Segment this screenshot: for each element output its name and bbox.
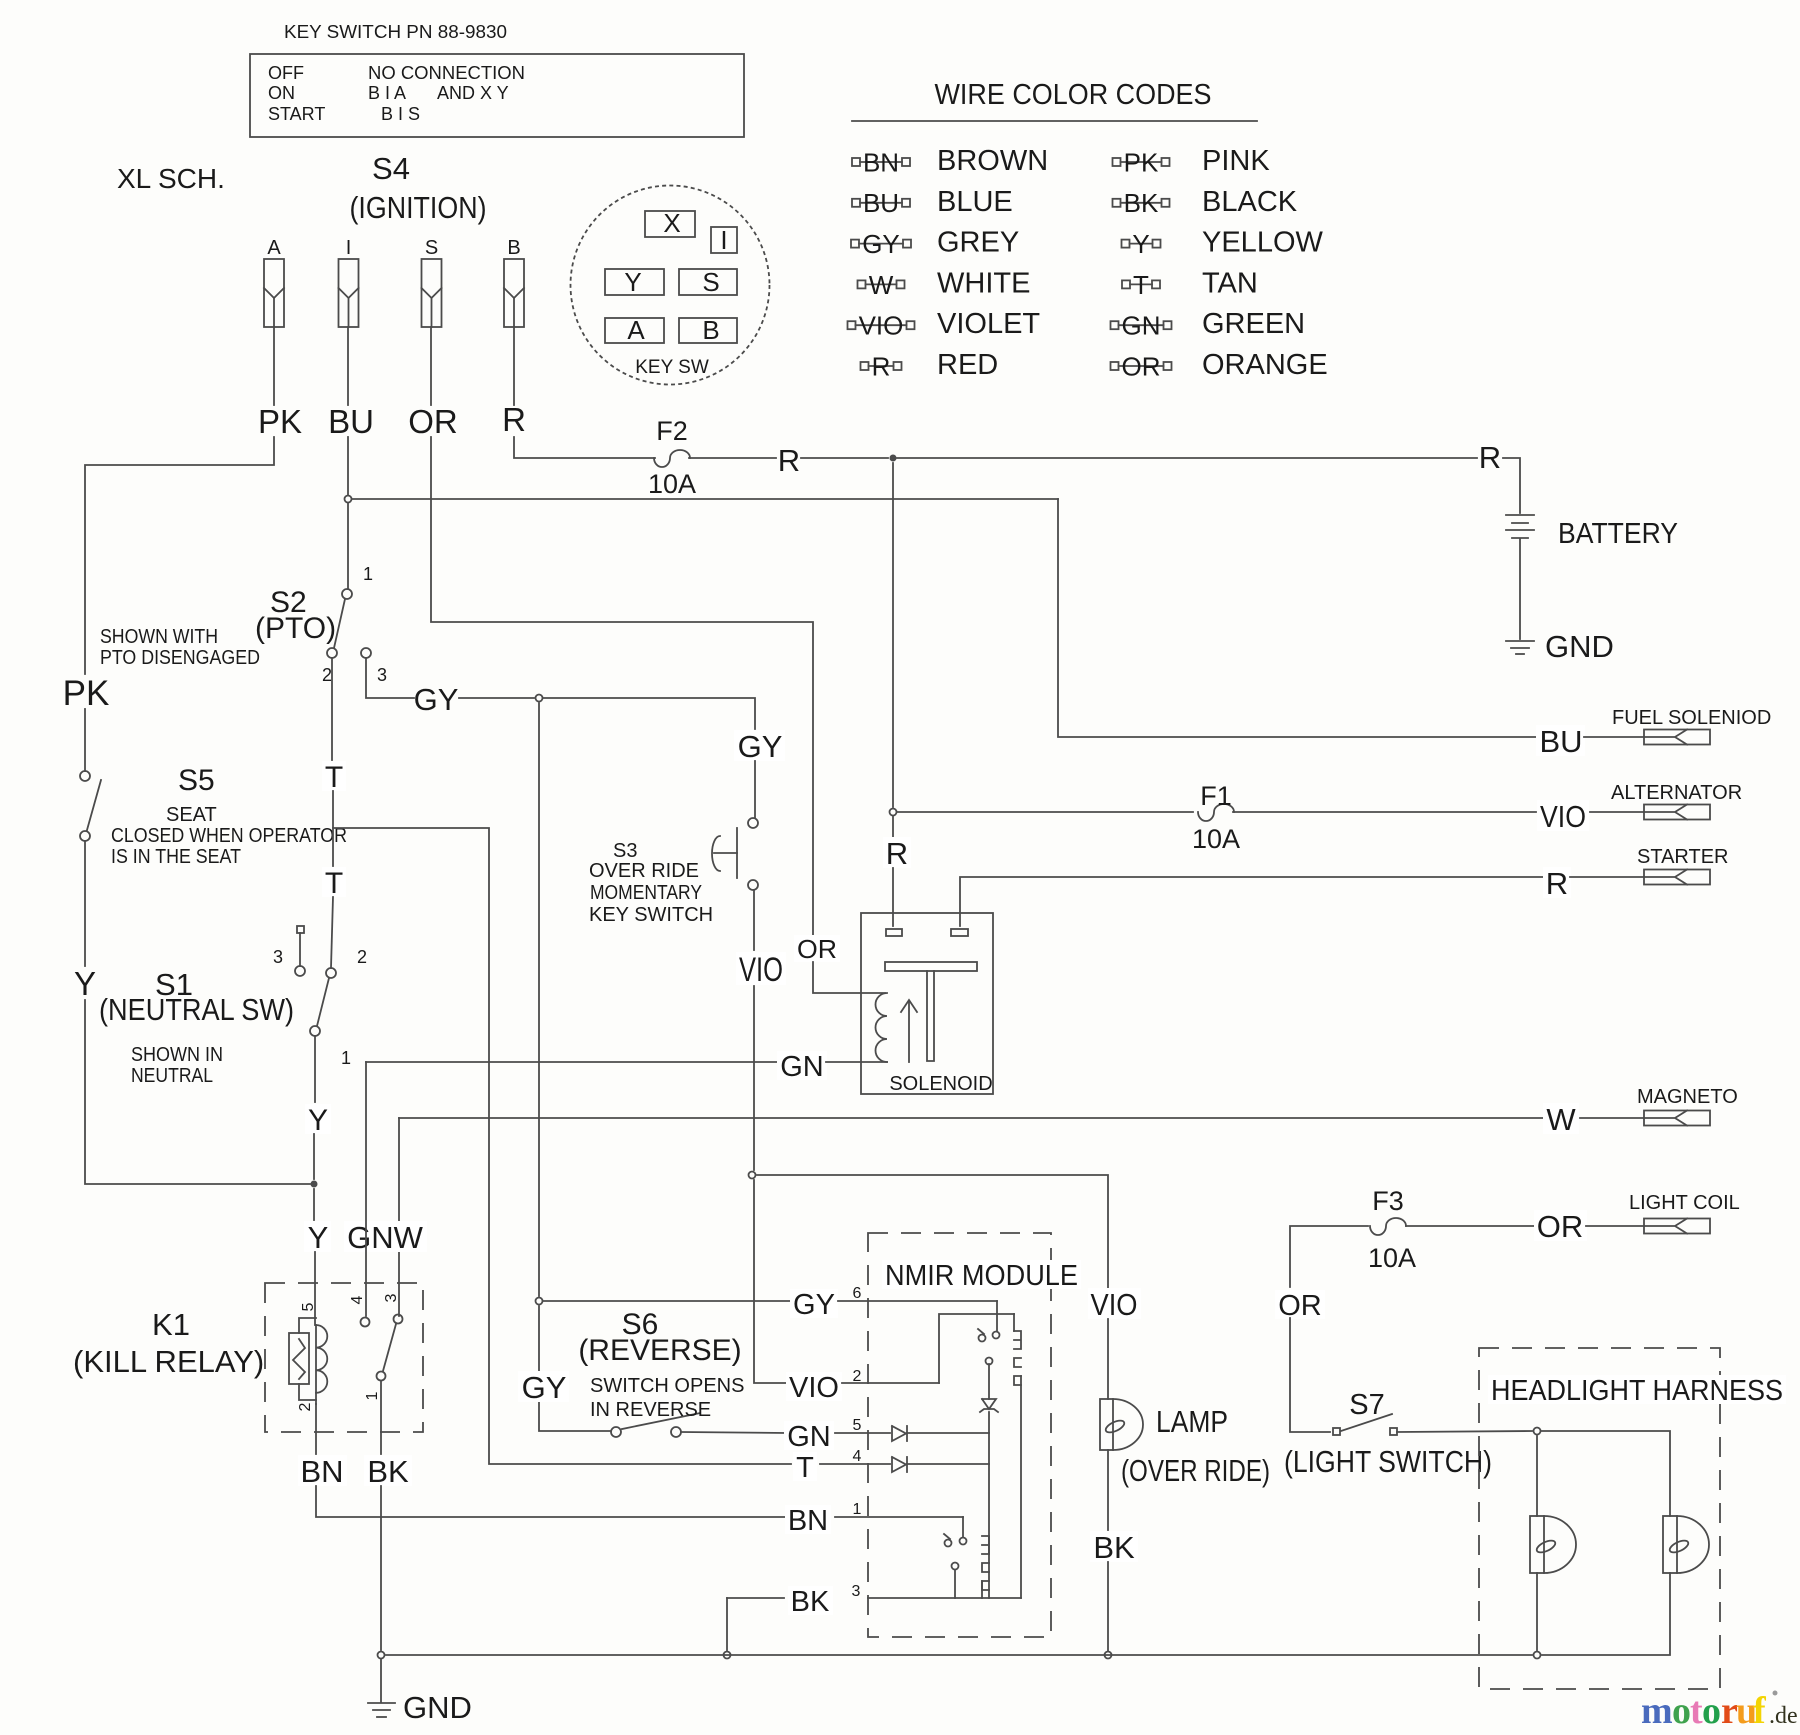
legend entry BK BLACK bbox=[1113, 199, 1121, 207]
svg-text:(NEUTRAL SW): (NEUTRAL SW) bbox=[99, 992, 294, 1027]
legend entry BU BLUE bbox=[852, 199, 860, 207]
wire BK down to bus bbox=[726, 1598, 728, 1650]
svg-text:m: m bbox=[1641, 1690, 1673, 1732]
svg-text:T: T bbox=[325, 761, 343, 794]
label Y mid bbox=[305, 1104, 331, 1134]
svg-text:OVER RIDE: OVER RIDE bbox=[589, 860, 699, 882]
label GY pin6 bbox=[790, 1289, 838, 1318]
wire VIO to NMIR pin2 bbox=[754, 1180, 787, 1383]
svg-text:S3: S3 bbox=[613, 840, 637, 862]
svg-text:OR: OR bbox=[408, 403, 458, 440]
legend entry PK PINK bbox=[1113, 158, 1121, 166]
svg-text:STARTER: STARTER bbox=[1637, 846, 1729, 868]
junction GY to NMIR pin6 bbox=[536, 1298, 543, 1305]
svg-text:(LIGHT SWITCH): (LIGHT SWITCH) bbox=[1284, 1444, 1492, 1479]
junction bus lamp bbox=[1105, 1652, 1112, 1659]
wire VIO to alternator bbox=[1233, 811, 1536, 813]
svg-text:PK: PK bbox=[258, 403, 302, 440]
svg-text:(KILL RELAY): (KILL RELAY) bbox=[73, 1344, 264, 1379]
svg-text:Y: Y bbox=[624, 267, 641, 297]
svg-text:LAMP: LAMP bbox=[1156, 1404, 1228, 1439]
svg-text:BROWN: BROWN bbox=[937, 145, 1048, 177]
svg-text:R: R bbox=[872, 351, 891, 381]
svg-text:SHOWN WITH: SHOWN WITH bbox=[100, 626, 218, 648]
svg-text:Y: Y bbox=[74, 965, 96, 1002]
label T lower bbox=[322, 867, 346, 897]
svg-text:4: 4 bbox=[349, 1295, 366, 1304]
svg-text:SOLENOID: SOLENOID bbox=[889, 1073, 992, 1095]
junction BU branch bbox=[345, 496, 352, 503]
svg-text:A: A bbox=[627, 315, 645, 345]
wire VIO down bbox=[753, 986, 755, 1170]
svg-text:o: o bbox=[1702, 1690, 1721, 1732]
wire BU to fuel solenoid bbox=[1058, 499, 1536, 737]
label BU right bbox=[1536, 725, 1585, 756]
wire VIO from S3 bbox=[753, 890, 755, 950]
svg-text:SWITCH OPENS: SWITCH OPENS bbox=[590, 1375, 744, 1397]
svg-text:1: 1 bbox=[364, 1391, 381, 1400]
label BN pin1 bbox=[785, 1505, 831, 1534]
svg-text:S4: S4 bbox=[372, 151, 410, 186]
label VIO pin2 bbox=[786, 1372, 842, 1401]
wire R to solenoid terminal bbox=[892, 868, 894, 926]
svg-text:S: S bbox=[702, 267, 719, 297]
NMIR relay2 wiring bbox=[962, 1517, 964, 1537]
svg-text:GY: GY bbox=[414, 682, 459, 717]
svg-text:I: I bbox=[346, 237, 352, 259]
wire R after fuse bbox=[689, 457, 776, 459]
svg-text:BLACK: BLACK bbox=[1202, 186, 1298, 218]
svg-text:R: R bbox=[1546, 866, 1568, 901]
label OR S7 bbox=[1275, 1290, 1325, 1319]
svg-text:GREY: GREY bbox=[937, 227, 1019, 259]
svg-text:GY: GY bbox=[522, 1370, 567, 1405]
wire GN into module bbox=[835, 1432, 890, 1434]
solenoid terminal right bbox=[951, 929, 968, 936]
label BK pin3 bbox=[788, 1586, 833, 1615]
wire GY from S2-3 bbox=[366, 658, 414, 698]
NMIR blade to zener bbox=[988, 1364, 990, 1399]
wire GY S3 upper bbox=[754, 761, 756, 818]
terminal A box bbox=[605, 318, 664, 343]
K1 coil bbox=[315, 1325, 317, 1404]
terminal S box bbox=[679, 269, 737, 295]
wire GY pin6 line bbox=[543, 1300, 791, 1302]
wire S7 to harness bbox=[1397, 1431, 1532, 1432]
wire OR down and right bbox=[431, 437, 813, 936]
switch S2 PTO bbox=[342, 589, 352, 599]
svg-text:ALTERNATOR: ALTERNATOR bbox=[1611, 782, 1742, 804]
wire GN to coil bbox=[826, 1061, 887, 1063]
svg-text:SEAT: SEAT bbox=[166, 804, 217, 826]
NMIR module box bbox=[868, 1233, 1051, 1637]
svg-text:XL SCH.: XL SCH. bbox=[117, 163, 225, 194]
K1 pin3 contact bbox=[394, 1315, 403, 1324]
momentary switch S3 bbox=[748, 818, 758, 828]
connector LIGHT COIL bbox=[1644, 1219, 1710, 1234]
svg-text:5: 5 bbox=[300, 1302, 317, 1311]
junction harness left lamp bbox=[1534, 1428, 1541, 1435]
svg-text:BK: BK bbox=[791, 1586, 830, 1618]
terminal X box bbox=[645, 211, 695, 237]
wire VIO to lamp bbox=[757, 1175, 1108, 1288]
svg-text:GN: GN bbox=[780, 1051, 824, 1083]
svg-text:10A: 10A bbox=[1192, 824, 1240, 854]
wire OR down to S7 bbox=[1290, 1318, 1330, 1432]
fuse F2 10A bbox=[654, 450, 690, 467]
legend entry R RED bbox=[861, 362, 869, 370]
solenoid coil bbox=[876, 993, 887, 1062]
terminal Y box bbox=[605, 269, 664, 295]
svg-text:Y: Y bbox=[308, 1220, 329, 1255]
svg-text:WHITE: WHITE bbox=[937, 267, 1030, 299]
svg-text:SHOWN IN: SHOWN IN bbox=[131, 1044, 223, 1066]
svg-text:1: 1 bbox=[853, 1501, 862, 1518]
wire OR from S4-S bbox=[430, 327, 432, 405]
svg-text:VIO: VIO bbox=[1540, 799, 1586, 834]
svg-text:BN: BN bbox=[300, 1454, 343, 1489]
svg-text:R: R bbox=[886, 836, 908, 871]
wire F1 line bbox=[897, 811, 1193, 813]
label BK lamp bbox=[1090, 1531, 1138, 1562]
svg-text:BK: BK bbox=[1124, 188, 1159, 218]
svg-text:R: R bbox=[1479, 440, 1501, 475]
wire R to battery junction bbox=[801, 457, 888, 459]
label GN bbox=[777, 1051, 827, 1080]
svg-text:PK: PK bbox=[63, 674, 110, 713]
svg-text:BATTERY: BATTERY bbox=[1558, 518, 1678, 550]
label R starter bbox=[1543, 867, 1571, 898]
label OR above solenoid bbox=[794, 935, 840, 962]
svg-text:MAGNETO: MAGNETO bbox=[1637, 1086, 1738, 1108]
svg-text:2: 2 bbox=[322, 665, 332, 685]
NMIR relay1 coil bbox=[1014, 1331, 1021, 1385]
svg-text:I: I bbox=[720, 225, 727, 255]
svg-text:R: R bbox=[502, 401, 526, 438]
terminal B box bbox=[679, 318, 737, 343]
svg-text:o: o bbox=[1672, 1690, 1691, 1732]
wire BK to ground bus bbox=[1107, 1562, 1109, 1651]
wire W to connector bbox=[1580, 1117, 1644, 1119]
svg-text:A: A bbox=[267, 237, 281, 259]
wire R corner to battery bbox=[1503, 458, 1520, 513]
key switch truth table box bbox=[250, 54, 744, 137]
label GY at S6 bbox=[518, 1371, 569, 1402]
label OR light coil bbox=[1534, 1210, 1587, 1241]
diode pin4 bbox=[892, 1457, 906, 1472]
svg-text:CLOSED WHEN OPERATOR: CLOSED WHEN OPERATOR bbox=[111, 825, 347, 847]
svg-text:START: START bbox=[268, 104, 325, 124]
svg-text:VIO: VIO bbox=[859, 311, 904, 341]
svg-text:IN REVERSE: IN REVERSE bbox=[590, 1399, 711, 1421]
svg-text:S: S bbox=[425, 237, 438, 259]
svg-text:W: W bbox=[1546, 1102, 1576, 1137]
svg-text:OFF: OFF bbox=[268, 63, 304, 83]
svg-text:T: T bbox=[796, 1452, 814, 1484]
svg-text:B: B bbox=[702, 315, 719, 345]
svg-text:2: 2 bbox=[357, 947, 367, 967]
legend entry OR ORANGE bbox=[1111, 362, 1119, 370]
svg-text:F2: F2 bbox=[656, 416, 688, 446]
wire BU down bbox=[347, 437, 349, 495]
terminal I box bbox=[711, 227, 737, 253]
wire BN to NMIR pin1 bbox=[316, 1486, 786, 1517]
wire R to battery bbox=[897, 457, 1477, 459]
svg-text:BN: BN bbox=[863, 147, 899, 177]
svg-text:HEADLIGHT HARNESS: HEADLIGHT HARNESS bbox=[1491, 1375, 1783, 1407]
svg-text:B I S: B I S bbox=[381, 104, 420, 124]
label T pin4 bbox=[793, 1452, 817, 1481]
wire T mid bbox=[332, 791, 334, 866]
label R solenoid bbox=[883, 837, 911, 868]
svg-text:BK: BK bbox=[1093, 1530, 1135, 1565]
switch S1 pin3 stub bbox=[297, 926, 304, 933]
svg-text:(OVER RIDE): (OVER RIDE) bbox=[1121, 1453, 1270, 1488]
connector STARTER bbox=[1644, 870, 1710, 885]
svg-text:B I A: B I A bbox=[368, 83, 406, 103]
headlight lamp right bbox=[1663, 1516, 1677, 1573]
wire PK from S4-A bbox=[273, 327, 275, 405]
zener diode bbox=[982, 1399, 996, 1409]
svg-text:S7: S7 bbox=[1349, 1389, 1384, 1421]
switch S1 neutral bbox=[326, 968, 336, 978]
svg-text:BK: BK bbox=[367, 1454, 409, 1489]
svg-text:(REVERSE): (REVERSE) bbox=[578, 1334, 741, 1367]
svg-text:1: 1 bbox=[341, 1048, 351, 1068]
svg-text:AND X Y: AND X Y bbox=[437, 83, 509, 103]
wire BU to connector bbox=[1584, 736, 1644, 738]
wire BU to S2 bbox=[347, 503, 349, 589]
headlight harness box bbox=[1479, 1348, 1720, 1689]
svg-text:S5: S5 bbox=[178, 764, 215, 797]
svg-text:VIO: VIO bbox=[1091, 1287, 1138, 1322]
NMIR relay1 wiring bbox=[996, 1301, 998, 1331]
svg-text:IS IN THE SEAT: IS IN THE SEAT bbox=[111, 846, 241, 868]
label GY above S3 bbox=[734, 730, 785, 761]
svg-text:GND: GND bbox=[403, 1690, 472, 1725]
svg-text:B: B bbox=[507, 237, 520, 259]
solenoid T plunger bbox=[885, 962, 977, 971]
wire Y to K1 bbox=[313, 1189, 315, 1220]
svg-text:GY: GY bbox=[738, 729, 783, 764]
relay K1 box bbox=[265, 1283, 423, 1432]
wire T from S2-2 bbox=[331, 658, 333, 760]
svg-text:W: W bbox=[869, 270, 894, 300]
NMIR loop pin2 to coil bbox=[939, 1314, 1014, 1383]
wire F3 line bbox=[1290, 1226, 1368, 1287]
wire right lamp to bus bbox=[1542, 1573, 1670, 1655]
ground bus bbox=[386, 1654, 1532, 1656]
svg-text:OR: OR bbox=[1278, 1290, 1322, 1322]
lamp over ride bbox=[1100, 1399, 1113, 1450]
wire battery to ground bbox=[1519, 539, 1521, 639]
svg-text:MOMENTARY: MOMENTARY bbox=[590, 882, 702, 904]
wire T to S1 bbox=[331, 897, 333, 968]
svg-text:VIO: VIO bbox=[739, 951, 783, 989]
label W bbox=[1543, 1103, 1579, 1134]
junction bus BK-K1 bbox=[378, 1652, 385, 1659]
svg-text:VIOLET: VIOLET bbox=[937, 308, 1040, 340]
diode pin5 bbox=[892, 1426, 906, 1441]
svg-text:OR: OR bbox=[1122, 351, 1161, 381]
wire GN line bbox=[366, 1061, 778, 1063]
label VIO lamp bbox=[1088, 1288, 1141, 1319]
svg-text:NO CONNECTION: NO CONNECTION bbox=[368, 63, 525, 83]
wire R below F1 junction bbox=[892, 816, 894, 845]
svg-text:(PTO): (PTO) bbox=[255, 612, 336, 645]
svg-text:BU: BU bbox=[1539, 724, 1582, 759]
svg-text:1: 1 bbox=[363, 564, 373, 584]
svg-text:PTO DISENGAGED: PTO DISENGAGED bbox=[100, 647, 260, 669]
svg-text:F1: F1 bbox=[1200, 781, 1232, 811]
ground symbol bbox=[380, 1659, 382, 1702]
junction left lamp bus bbox=[1534, 1652, 1541, 1659]
wire BK pin3 bbox=[868, 1597, 1021, 1599]
legend entry W WHITE bbox=[858, 280, 866, 288]
svg-text:R: R bbox=[778, 443, 800, 478]
svg-text:GN: GN bbox=[1122, 311, 1161, 341]
connector FUEL SOLENIOD bbox=[1644, 730, 1710, 745]
K1 suppression resistor bbox=[299, 1318, 316, 1333]
svg-text:KEY SWITCH PN 88-9830: KEY SWITCH PN 88-9830 bbox=[284, 22, 507, 42]
wire PK to S5 bbox=[84, 709, 86, 771]
label VIO bbox=[736, 952, 786, 985]
label BK K1 bbox=[364, 1455, 412, 1486]
svg-text:OR: OR bbox=[1537, 1209, 1584, 1244]
wire to starter connector bbox=[1570, 876, 1644, 878]
wire GN into K1 pin4 bbox=[365, 1062, 367, 1316]
label BN K1 bbox=[298, 1455, 347, 1486]
svg-text:BU: BU bbox=[863, 188, 899, 218]
svg-text:VIO: VIO bbox=[789, 1372, 839, 1404]
svg-text:GN: GN bbox=[787, 1421, 831, 1453]
svg-text:5: 5 bbox=[853, 1417, 862, 1434]
svg-text:6: 6 bbox=[853, 1285, 862, 1302]
svg-text:K1: K1 bbox=[152, 1307, 190, 1342]
svg-text:2: 2 bbox=[297, 1402, 314, 1411]
svg-text:4: 4 bbox=[853, 1448, 862, 1465]
wire Y into K1 bbox=[314, 1252, 316, 1325]
wire R down to F2 bbox=[514, 437, 655, 458]
svg-text:T: T bbox=[1133, 270, 1149, 300]
wire GY to S6 bbox=[539, 1306, 611, 1431]
wire VIO into module bbox=[842, 1382, 939, 1384]
wire Y to junction bbox=[313, 1134, 315, 1179]
legend entry VIO VIOLET bbox=[848, 321, 856, 329]
svg-text:F3: F3 bbox=[1372, 1186, 1404, 1216]
connector ALTERNATOR bbox=[1644, 805, 1710, 820]
wire starter from solenoid bbox=[960, 877, 1544, 926]
headlight lamp left bbox=[1530, 1516, 1544, 1573]
seat switch S5 bbox=[80, 771, 90, 781]
svg-text:10A: 10A bbox=[1368, 1243, 1416, 1273]
wire BU branch right bbox=[352, 498, 1058, 500]
svg-text:X: X bbox=[663, 208, 680, 238]
svg-text:BN: BN bbox=[788, 1505, 828, 1537]
svg-text:3: 3 bbox=[273, 947, 283, 967]
svg-text:LIGHT COIL: LIGHT COIL bbox=[1629, 1192, 1740, 1214]
svg-text:GY: GY bbox=[862, 229, 900, 259]
svg-text:ON: ON bbox=[268, 83, 295, 103]
fuse F3 10A bbox=[1370, 1218, 1406, 1235]
battery bbox=[1506, 514, 1534, 516]
light switch S7 bbox=[1333, 1428, 1340, 1435]
wire BN from K1 coil bbox=[315, 1404, 317, 1454]
wire harness top bbox=[1541, 1431, 1670, 1516]
svg-text:GND: GND bbox=[1545, 629, 1614, 664]
solenoid terminal left bbox=[886, 929, 902, 936]
label GN pin5 bbox=[784, 1421, 834, 1450]
junction GY bbox=[536, 695, 543, 702]
wire R down to F1 bbox=[892, 463, 894, 807]
svg-text:YELLOW: YELLOW bbox=[1202, 227, 1323, 259]
wire GY vertical down bbox=[538, 703, 540, 1296]
svg-text:OR: OR bbox=[797, 934, 837, 964]
svg-text:BLUE: BLUE bbox=[937, 186, 1013, 218]
svg-text:TAN: TAN bbox=[1202, 267, 1258, 299]
wire GN from S6 to NMIR pin5 bbox=[681, 1432, 786, 1433]
legend underline bbox=[852, 120, 1257, 122]
ground battery bbox=[1506, 640, 1534, 642]
wire BK to bus bbox=[380, 1486, 382, 1650]
wire left lamp bbox=[1536, 1436, 1538, 1516]
legend entry GN GREEN bbox=[1111, 321, 1119, 329]
wire BK from lamp bbox=[1107, 1450, 1109, 1530]
wire BU from S4-I bbox=[347, 327, 349, 405]
wire T into module bbox=[820, 1463, 890, 1465]
junction R bbox=[890, 455, 897, 462]
svg-text:NMIR MODULE: NMIR MODULE bbox=[885, 1260, 1078, 1292]
wire W to magneto bbox=[398, 1118, 400, 1316]
legend entry T TAN bbox=[1122, 280, 1130, 288]
legend entry Y YELLOW bbox=[1122, 240, 1130, 248]
NMIR relay2 coil bbox=[982, 1536, 989, 1590]
wire GY to S3 bbox=[543, 698, 755, 729]
svg-text:3: 3 bbox=[383, 1293, 400, 1302]
wire Y from S5 bbox=[84, 841, 86, 966]
svg-text:f: f bbox=[1753, 1690, 1767, 1732]
label NMIR MODULE bbox=[882, 1260, 1081, 1289]
label HEADLIGHT HARNESS bbox=[1488, 1375, 1786, 1404]
junction bus BK-NMIR bbox=[724, 1652, 731, 1659]
label GNW bbox=[344, 1221, 427, 1252]
svg-text:KEY SWITCH: KEY SWITCH bbox=[589, 904, 713, 926]
svg-text:3: 3 bbox=[852, 1583, 861, 1600]
label T upper bbox=[322, 761, 346, 791]
svg-text:WIRE COLOR CODES: WIRE COLOR CODES bbox=[935, 79, 1212, 111]
K1 blade bbox=[383, 1324, 396, 1371]
svg-text:PK: PK bbox=[1124, 147, 1159, 177]
wire to alternator connector bbox=[1590, 811, 1644, 813]
wire T branch to NMIR bbox=[333, 828, 791, 1464]
wire PK down-left bbox=[85, 437, 274, 674]
svg-text:BU: BU bbox=[328, 403, 374, 440]
svg-text:3: 3 bbox=[377, 665, 387, 685]
wire left lamp to bus bbox=[1536, 1573, 1538, 1650]
svg-text:GREEN: GREEN bbox=[1202, 308, 1305, 340]
svg-text:RED: RED bbox=[937, 349, 998, 381]
K1 pin4 contact bbox=[361, 1318, 370, 1327]
wire Y to junction bbox=[85, 1000, 310, 1184]
label VIO alternator bbox=[1537, 800, 1589, 831]
junction R F1 bbox=[890, 809, 897, 816]
svg-text:NEUTRAL: NEUTRAL bbox=[131, 1065, 213, 1087]
wire BN into module bbox=[835, 1516, 963, 1518]
wire R from S4-B bbox=[513, 327, 515, 405]
svg-text:GY: GY bbox=[793, 1289, 835, 1321]
svg-text:ORANGE: ORANGE bbox=[1202, 349, 1328, 381]
wire to light coil connector bbox=[1586, 1225, 1644, 1227]
